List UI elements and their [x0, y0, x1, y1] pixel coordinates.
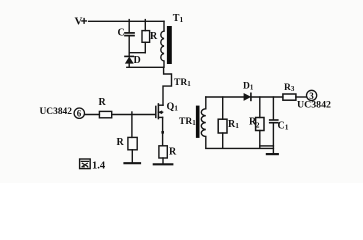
- resistor R (gate pulldown): [117, 137, 138, 163]
- junction on source lead: [161, 131, 164, 134]
- wire drain node horizontal: [127, 66, 164, 68]
- ground (source R): [154, 163, 173, 165]
- svg-text:R: R: [150, 31, 158, 42]
- svg-text:1.4: 1.4: [92, 160, 106, 171]
- wire V+ rail: [89, 20, 164, 22]
- current transformer TR1 primary (series jog in drain path): [163, 67, 172, 105]
- transformer T1 core: [167, 26, 172, 64]
- label TR1 (primary): [174, 78, 191, 88]
- resistor R (gate): [99, 97, 112, 118]
- svg-text:TR1: TR1: [174, 78, 191, 88]
- label TR1 (secondary): [179, 117, 196, 127]
- svg-text:3: 3: [309, 91, 314, 101]
- svg-text:R3: R3: [284, 83, 295, 93]
- transformer T1 label: [173, 13, 184, 24]
- svg-text:T1: T1: [173, 13, 184, 24]
- wire R3 to pin 3: [296, 96, 307, 98]
- svg-text:6: 6: [77, 109, 82, 119]
- resistor R1 branch: [218, 97, 239, 148]
- resistor R (snubber): [142, 20, 158, 53]
- svg-text:C: C: [118, 28, 125, 39]
- svg-text:R: R: [117, 137, 125, 148]
- transformer T1 primary winding: [161, 31, 164, 67]
- TR1 secondary core: [196, 106, 200, 138]
- svg-text:UC3842: UC3842: [40, 107, 73, 117]
- diode D1: [243, 82, 254, 101]
- figure label 图1.4: [80, 159, 106, 171]
- wire top rail after D1: [251, 96, 283, 98]
- svg-text:R1: R1: [228, 119, 239, 130]
- IC UC3842 label (right): [297, 100, 331, 110]
- svg-text:R: R: [169, 147, 177, 158]
- wire pin6 to gate resistor: [85, 114, 100, 116]
- resistor R3: [283, 83, 296, 100]
- wire right loop top rail: [206, 96, 244, 98]
- diode D (snubber): [125, 53, 141, 68]
- ground (gate pulldown): [125, 162, 141, 164]
- svg-text:D: D: [134, 55, 141, 66]
- svg-text:2: 2: [256, 121, 260, 130]
- svg-text:TR1: TR1: [179, 117, 196, 127]
- capacitor C (snubber): [118, 20, 135, 53]
- svg-text:UC3842: UC3842: [297, 100, 331, 110]
- resistor R2 branch: [249, 97, 264, 148]
- capacitor C1 branch: [270, 97, 289, 153]
- wire pulldown branch: [131, 112, 133, 137]
- wire right loop bottom rail: [206, 147, 274, 149]
- wire R2 to C1 link: [260, 145, 274, 147]
- IC UC3842 pin 6 label: [40, 107, 73, 117]
- current transformer TR1 secondary winding: [201, 97, 206, 148]
- wire Q1 source lead: [162, 117, 164, 145]
- svg-text:D1: D1: [243, 82, 254, 92]
- wire gate: [112, 114, 156, 116]
- wire T1 primary top lead: [163, 21, 165, 31]
- node V+ label: [75, 16, 83, 28]
- svg-text:R: R: [99, 97, 107, 108]
- svg-text:C1: C1: [278, 120, 289, 131]
- pin 6 circle: [74, 108, 84, 118]
- IC UC3842 pin 3 circle: [307, 90, 317, 100]
- MOSFET Q1: [156, 102, 178, 119]
- svg-text:Q1: Q1: [167, 102, 179, 113]
- resistor R (source sense): [159, 146, 177, 165]
- ground (C1): [267, 153, 278, 155]
- wire snubber junction: [129, 52, 145, 54]
